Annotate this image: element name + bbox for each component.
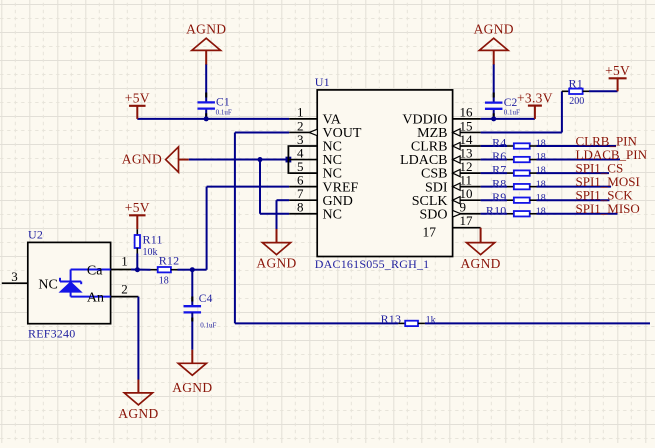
- wire pin to R10: [481, 213, 507, 215]
- svg-text:R4: R4: [492, 136, 506, 150]
- resistor R13 1k: [398, 322, 405, 324]
- svg-text:10k: 10k: [143, 247, 158, 258]
- svg-text:AGND: AGND: [460, 256, 500, 271]
- svg-text:18: 18: [536, 152, 546, 163]
- pin input arrow: [453, 197, 461, 204]
- U2 box: [28, 242, 111, 323]
- pin input arrow: [453, 156, 461, 163]
- pin 2 out arrow: [309, 129, 317, 136]
- wire pin to R7: [481, 172, 507, 174]
- wire +5V to pin1 VA: [137, 118, 289, 120]
- pin 8 NC: [289, 213, 317, 215]
- svg-text:R10: R10: [486, 203, 507, 217]
- wire C4 to AGND: [191, 312, 193, 349]
- svg-text:R8: R8: [492, 176, 506, 190]
- resistor R4 18: [507, 145, 514, 147]
- svg-text:+5V: +5V: [125, 200, 150, 215]
- node square pad at NC tie: [286, 157, 292, 163]
- pin 17: [453, 227, 481, 229]
- svg-text:SDO: SDO: [419, 207, 447, 222]
- pin 1 VA: [289, 118, 317, 120]
- wire R12 to junction: [178, 269, 193, 271]
- wire pin15 MZB to R1: [481, 131, 562, 133]
- svg-text:AGND: AGND: [118, 406, 158, 421]
- power +5V above R11: [129, 214, 146, 216]
- capacitor C2: [485, 101, 503, 103]
- svg-text:18: 18: [536, 206, 546, 217]
- svg-text:R12: R12: [159, 254, 180, 268]
- pin 3 NC: [289, 145, 317, 147]
- pin 7 GND: [289, 199, 317, 201]
- wire NC tie vertical (pins 3,4,5): [287, 145, 289, 174]
- svg-text:+3.3V: +3.3V: [517, 90, 553, 105]
- wire pin to R6: [481, 159, 507, 161]
- wire to net SPI1_MOSI: [537, 186, 612, 188]
- wire to net SPI1_CS: [537, 172, 610, 174]
- svg-text:200: 200: [569, 96, 584, 107]
- resistor R7 18: [507, 172, 514, 174]
- wire pin17 to AGND: [480, 227, 482, 229]
- pin input arrow: [453, 170, 461, 177]
- svg-text:2: 2: [121, 281, 128, 296]
- svg-text:+5V: +5V: [125, 91, 150, 106]
- svg-text:An: An: [87, 291, 104, 306]
- ground AGND below U2 pin2: [137, 380, 139, 393]
- svg-text:18: 18: [536, 166, 546, 177]
- node junction R12/C4/VREF: [190, 267, 195, 272]
- resistor R1 200: [569, 89, 583, 94]
- svg-text:C4: C4: [199, 293, 213, 305]
- svg-text:0.1uF: 0.1uF: [504, 108, 520, 116]
- svg-text:17: 17: [423, 224, 437, 239]
- resistor R8 18: [507, 186, 514, 188]
- pin 2 VOUT: [289, 131, 317, 133]
- pin input arrow: [453, 142, 461, 149]
- pin 5 NC: [289, 172, 317, 174]
- wire pin to R8: [481, 186, 507, 188]
- svg-text:C1: C1: [216, 97, 230, 109]
- node junction C1/pin1: [204, 116, 209, 121]
- pin 6 VREF: [289, 186, 317, 188]
- wire pin to R4: [481, 145, 507, 147]
- wire AGND to NC pins 3-5: [189, 159, 289, 161]
- pin 12 CSB: [453, 172, 481, 174]
- wire pin16 VDDIO to +3.3V: [481, 118, 535, 120]
- svg-text:+5V: +5V: [605, 63, 630, 78]
- node junction C2/pin16: [491, 116, 496, 121]
- pin 9 SDO: [453, 213, 481, 215]
- svg-text:0.1uF: 0.1uF: [200, 322, 216, 330]
- wire R1 to +5V: [589, 90, 618, 92]
- svg-text:SPI1_MISO: SPI1_MISO: [576, 201, 640, 216]
- svg-text:8: 8: [297, 200, 304, 215]
- svg-text:NC: NC: [323, 207, 342, 222]
- pin 4 NC: [289, 159, 317, 161]
- wire C2 vertical: [493, 64, 495, 103]
- svg-text:AGND: AGND: [256, 256, 296, 271]
- svg-text:U1: U1: [315, 75, 330, 89]
- svg-text:AGND: AGND: [172, 380, 212, 395]
- resistor R12 18: [151, 269, 158, 271]
- wire pin2 down to AGND: [137, 297, 139, 380]
- svg-text:Ca: Ca: [87, 264, 103, 279]
- wire pin1 junction row: [131, 269, 151, 271]
- svg-text:AGND: AGND: [122, 152, 162, 167]
- svg-text:18: 18: [536, 139, 546, 150]
- svg-text:3: 3: [11, 269, 17, 284]
- svg-text:AGND: AGND: [474, 22, 514, 37]
- svg-text:DAC161S055_RGH_1: DAC161S055_RGH_1: [315, 257, 430, 271]
- pin 3 of U2: [2, 282, 28, 284]
- svg-text:R13: R13: [381, 312, 402, 326]
- U1 box: [317, 90, 452, 257]
- wire pin to R9: [481, 199, 507, 201]
- node junction on NC wire: [258, 157, 263, 162]
- wire C1 vertical: [205, 64, 207, 102]
- svg-text:R7: R7: [492, 163, 506, 177]
- resistor R10 18: [507, 213, 514, 215]
- pin 14 CLRB: [453, 145, 481, 147]
- wire junction down to C4: [191, 270, 193, 307]
- pin 9 SDO out arrow: [453, 210, 461, 217]
- capacitor C4: [184, 305, 202, 307]
- pin input arrow: [453, 183, 461, 190]
- svg-text:C2: C2: [504, 97, 518, 109]
- pin 15 MZB: [453, 131, 481, 133]
- pin 1 Ca of U2: [111, 269, 131, 271]
- wire junction down to pin8 NC: [259, 160, 261, 214]
- svg-text:1k: 1k: [426, 315, 436, 326]
- ground AGND below C4: [191, 350, 193, 364]
- svg-text:AGND: AGND: [186, 22, 226, 37]
- ground AGND below pin17: [480, 228, 482, 243]
- power +3.3V: [528, 104, 542, 106]
- resistor R6 18: [507, 159, 514, 161]
- svg-text:R11: R11: [143, 233, 163, 247]
- wire VREF net: [207, 186, 290, 188]
- pin 11 SDI: [453, 186, 481, 188]
- wire R11 to junction: [136, 254, 138, 270]
- capacitor C1: [197, 101, 215, 103]
- ground AGND above C1: [205, 50, 207, 64]
- svg-text:18: 18: [536, 179, 546, 190]
- svg-text:18: 18: [536, 193, 546, 204]
- node junction pin1/R11/R12: [135, 267, 140, 272]
- wire to net CLRB_PIN: [537, 145, 617, 147]
- svg-text:0.1uF: 0.1uF: [216, 108, 232, 116]
- pin 16 VDDIO: [453, 118, 481, 120]
- ground AGND above C2: [493, 50, 495, 64]
- svg-text:17: 17: [460, 213, 474, 228]
- svg-text:1: 1: [121, 254, 128, 269]
- wire to net SPI1_SCK: [537, 199, 610, 201]
- wire VOUT net: [235, 131, 289, 133]
- pin 10 SCLK: [453, 199, 481, 201]
- wire GND pin7 to AGND: [277, 199, 290, 201]
- wire to net LDACB_PIN: [537, 159, 621, 161]
- svg-text:NC: NC: [38, 277, 57, 292]
- wire to net SPI1_MISO: [537, 213, 618, 215]
- power +5V (top right): [609, 77, 627, 79]
- svg-text:U2: U2: [28, 228, 43, 242]
- resistor R9 18: [507, 199, 514, 201]
- svg-text:R6: R6: [492, 149, 506, 163]
- ground AGND below pin7: [276, 229, 278, 243]
- power +5V (top left): [129, 105, 146, 107]
- svg-text:R1: R1: [569, 76, 583, 90]
- svg-text:18: 18: [159, 276, 169, 287]
- diode D internal zener: [71, 269, 111, 271]
- resistor R11 10k: [136, 229, 138, 235]
- svg-text:R9: R9: [492, 190, 506, 204]
- svg-text:REF3240: REF3240: [28, 327, 75, 341]
- pin input arrow: [453, 129, 461, 136]
- pin 13 LDACB: [453, 159, 481, 161]
- pin 2 An of U2: [111, 296, 139, 298]
